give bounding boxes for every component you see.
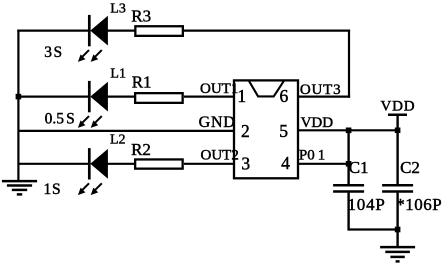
svg-text:P01: P01 bbox=[299, 147, 325, 163]
svg-text:OUT2: OUT2 bbox=[201, 147, 239, 163]
svg-text:6: 6 bbox=[280, 86, 289, 106]
IC U1 body bbox=[234, 80, 298, 178]
wire: C1 bottom to C2 bottom bbox=[349, 228, 398, 230]
svg-text:5: 5 bbox=[279, 121, 288, 141]
svg-text:R2: R2 bbox=[131, 140, 151, 159]
svg-text:L1: L1 bbox=[110, 67, 126, 82]
svg-text:104P: 104P bbox=[348, 195, 386, 214]
wire: pin 4 P01 to C1 column bbox=[298, 163, 349, 165]
wire: LED L3 to R3 bbox=[107, 30, 135, 32]
wire: row C from bus to LED L2 bbox=[18, 163, 89, 165]
chip notch bbox=[249, 81, 284, 96]
svg-text:1S: 1S bbox=[44, 181, 61, 198]
svg-text:VDD: VDD bbox=[301, 115, 334, 131]
wire: GND row from bus to chip pin 2 bbox=[18, 130, 233, 132]
wire: R2 to chip pin 3 bbox=[184, 163, 233, 165]
LED L2 bbox=[78, 148, 108, 195]
svg-text:C2: C2 bbox=[400, 158, 420, 177]
capacitor C1 bbox=[333, 130, 364, 230]
ground (left) bbox=[2, 181, 37, 194]
svg-text:C1: C1 bbox=[349, 158, 369, 177]
wire: LED L2 to R2 bbox=[107, 163, 135, 165]
junction dot at VDD column bbox=[395, 128, 401, 134]
wire: OUT3 row from corner to chip pin 6 bbox=[298, 95, 350, 97]
svg-text:VDD: VDD bbox=[381, 99, 416, 115]
junction dot at ground column bbox=[395, 227, 401, 233]
junction dot at P01/C1 bbox=[346, 161, 352, 167]
resistor R1 bbox=[135, 93, 183, 103]
svg-text:2: 2 bbox=[241, 121, 250, 141]
svg-text:L3: L3 bbox=[110, 2, 126, 17]
svg-text:L2: L2 bbox=[110, 133, 126, 148]
capacitor C2 bbox=[382, 130, 413, 246]
svg-text:OUT1: OUT1 bbox=[200, 81, 238, 97]
svg-text:OUT3: OUT3 bbox=[300, 82, 342, 98]
wire: top-right vertical down to OUT3 row bbox=[348, 30, 350, 98]
resistor R3 bbox=[135, 26, 183, 36]
svg-text:GND: GND bbox=[199, 114, 236, 131]
wire: left bus vertical bbox=[17, 30, 19, 181]
VDD power symbol bbox=[388, 115, 407, 131]
svg-text:3: 3 bbox=[241, 154, 250, 174]
svg-text:R3: R3 bbox=[131, 7, 151, 26]
svg-text:0.5S: 0.5S bbox=[45, 111, 75, 128]
wire: pin 5 VDD row to C2 column bbox=[298, 129, 398, 131]
svg-text:1: 1 bbox=[237, 86, 246, 106]
svg-text:3S: 3S bbox=[44, 44, 62, 61]
svg-text:R1: R1 bbox=[132, 73, 152, 92]
LED L3 bbox=[78, 15, 108, 62]
wire: LED L1 to R1 bbox=[107, 95, 135, 97]
junction dot at bus row B bbox=[16, 94, 22, 100]
junction dot at C1 top bbox=[346, 128, 352, 134]
wire: R1 to chip pin 1 bbox=[184, 95, 233, 97]
resistor R2 bbox=[135, 159, 183, 168]
svg-text:4: 4 bbox=[281, 153, 290, 173]
LED L1 bbox=[78, 81, 108, 128]
wire: top row from bus to LED L3 bbox=[17, 30, 89, 32]
ground (right) bbox=[380, 247, 415, 261]
svg-text:*106P: *106P bbox=[396, 195, 442, 214]
wire: row B from bus to LED L1 bbox=[18, 95, 89, 97]
wire: R3 to top-right corner bbox=[184, 30, 350, 32]
